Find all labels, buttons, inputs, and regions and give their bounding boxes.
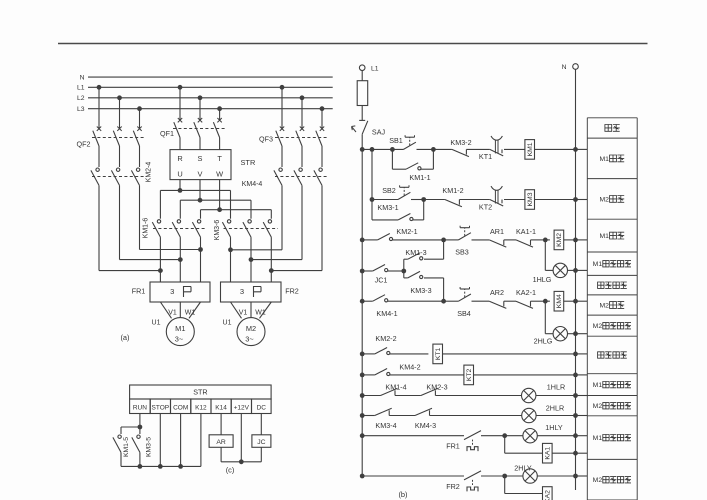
svg-text:FR1: FR1 (132, 286, 146, 295)
svg-text:K14: K14 (215, 404, 227, 411)
svg-text:2HLR: 2HLR (546, 404, 564, 413)
svg-text:W: W (216, 169, 223, 178)
svg-text:M1: M1 (599, 156, 609, 163)
svg-text:SB1: SB1 (389, 136, 403, 145)
svg-text:KM4-3: KM4-3 (415, 421, 436, 430)
svg-text:RUN: RUN (133, 404, 147, 411)
svg-text:COM: COM (173, 404, 188, 411)
svg-text:KT2: KT2 (479, 203, 492, 212)
svg-text:M1: M1 (599, 233, 609, 240)
svg-text:KM4-4: KM4-4 (242, 181, 263, 188)
svg-text:N: N (80, 74, 85, 81)
svg-text:3: 3 (170, 287, 174, 296)
svg-text:KM3-5: KM3-5 (146, 437, 153, 457)
svg-text:U1: U1 (223, 320, 232, 327)
svg-text:STOP: STOP (152, 404, 170, 411)
svg-text:KM2-2: KM2-2 (375, 334, 396, 343)
svg-text:V: V (198, 169, 203, 178)
svg-text:KM2-3: KM2-3 (426, 383, 447, 392)
svg-text:M1: M1 (175, 324, 185, 333)
svg-text:L2: L2 (77, 95, 85, 102)
svg-text:W1: W1 (185, 309, 196, 316)
svg-text:(a): (a) (120, 333, 129, 342)
svg-text:QF1: QF1 (160, 129, 174, 138)
svg-text:M2: M2 (246, 324, 256, 333)
svg-text:KT1: KT1 (435, 347, 442, 360)
svg-text:AR: AR (216, 439, 226, 446)
svg-text:M1: M1 (593, 435, 603, 442)
svg-text:M2: M2 (593, 477, 603, 484)
svg-text:KM1-5: KM1-5 (123, 437, 130, 457)
svg-text:N: N (562, 64, 567, 71)
svg-text:V1: V1 (168, 309, 177, 316)
svg-text:W1: W1 (255, 309, 266, 316)
svg-text:2HLY: 2HLY (514, 464, 532, 473)
svg-text:M1: M1 (593, 382, 603, 389)
svg-text:1HLR: 1HLR (547, 383, 565, 392)
svg-text:K12: K12 (195, 404, 207, 411)
svg-text:STR: STR (193, 388, 207, 397)
svg-text:AR1: AR1 (490, 227, 504, 236)
svg-text:AR2: AR2 (490, 288, 504, 297)
svg-text:SB4: SB4 (457, 309, 471, 318)
svg-text:KM4-1: KM4-1 (376, 309, 397, 318)
svg-text:KM2: KM2 (556, 233, 563, 247)
svg-text:(c): (c) (226, 466, 235, 475)
svg-text:KA1: KA1 (545, 447, 552, 460)
svg-text:JC1: JC1 (375, 275, 388, 284)
svg-text:KA2-1: KA2-1 (516, 288, 536, 297)
svg-text:3~: 3~ (245, 335, 253, 344)
svg-text:JC: JC (257, 439, 265, 446)
svg-text:R: R (177, 154, 182, 163)
svg-text:M2: M2 (599, 302, 609, 309)
svg-text:1HLY: 1HLY (545, 423, 563, 432)
svg-text:3~: 3~ (175, 335, 183, 344)
svg-text:STR: STR (241, 158, 256, 167)
svg-text:KM3-6: KM3-6 (214, 220, 221, 241)
svg-text:KM1-6: KM1-6 (143, 218, 150, 239)
svg-text:3: 3 (240, 287, 244, 296)
svg-text:KM1-1: KM1-1 (409, 173, 430, 182)
svg-text:KM1-4: KM1-4 (385, 383, 406, 392)
svg-text:S: S (198, 154, 203, 163)
svg-text:U: U (177, 169, 182, 178)
svg-text:KT2: KT2 (466, 368, 473, 381)
svg-text:V1: V1 (239, 309, 248, 316)
svg-text:L3: L3 (77, 106, 85, 113)
svg-text:SAJ: SAJ (372, 128, 386, 137)
svg-text:KA1-1: KA1-1 (516, 227, 536, 236)
svg-text:KM4: KM4 (556, 294, 563, 308)
svg-text:KM3-4: KM3-4 (375, 421, 396, 430)
svg-text:M2: M2 (599, 196, 609, 203)
svg-text:M2: M2 (593, 403, 603, 410)
svg-text:KM3-2: KM3-2 (450, 138, 471, 147)
svg-text:2HLG: 2HLG (534, 337, 553, 346)
svg-text:KM4-2: KM4-2 (399, 362, 420, 371)
svg-text:KM3-1: KM3-1 (377, 203, 398, 212)
svg-text:FR1: FR1 (446, 442, 460, 451)
svg-text:KT1: KT1 (479, 152, 492, 161)
svg-text:SB3: SB3 (455, 247, 469, 256)
svg-text:KM1: KM1 (527, 142, 534, 156)
svg-text:L1: L1 (371, 65, 379, 72)
svg-text:M1: M1 (593, 261, 603, 268)
svg-text:KM3-3: KM3-3 (410, 286, 431, 295)
svg-text:KA2: KA2 (545, 490, 552, 500)
svg-text:KM2-4: KM2-4 (146, 162, 153, 183)
svg-text:(b): (b) (398, 490, 407, 499)
svg-text:U1: U1 (152, 320, 161, 327)
svg-text:QF3: QF3 (259, 135, 273, 144)
svg-text:DC: DC (257, 404, 267, 411)
svg-text:+12V: +12V (234, 404, 250, 411)
svg-text:FR2: FR2 (285, 286, 299, 295)
svg-text:L1: L1 (77, 85, 85, 92)
svg-text:KM1-3: KM1-3 (405, 248, 426, 257)
svg-text:QF2: QF2 (77, 140, 91, 149)
svg-text:SB2: SB2 (382, 186, 396, 195)
svg-text:M2: M2 (593, 323, 603, 330)
svg-text:KM3: KM3 (527, 192, 534, 206)
svg-text:KM2-1: KM2-1 (396, 227, 417, 236)
svg-text:T: T (217, 154, 222, 163)
svg-text:FR2: FR2 (446, 482, 460, 491)
svg-text:1HLG: 1HLG (533, 275, 552, 284)
svg-text:KM1-2: KM1-2 (442, 186, 463, 195)
